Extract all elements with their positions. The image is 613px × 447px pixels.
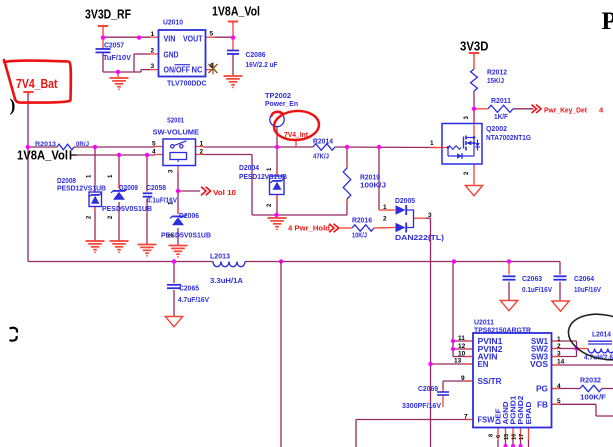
svg-text:2: 2: [151, 48, 155, 55]
svg-text:2: 2: [557, 343, 561, 350]
svg-text:100K/F: 100K/F: [580, 393, 607, 402]
svg-text:C2069: C2069: [418, 384, 438, 393]
svg-text:4.7uF/16V: 4.7uF/16V: [178, 295, 209, 304]
svg-text:U2010: U2010: [163, 18, 183, 27]
svg-text:1V8A_Vol: 1V8A_Vol: [17, 148, 68, 163]
svg-text:4: 4: [210, 63, 214, 70]
svg-text:SW-VOLUME: SW-VOLUME: [153, 128, 200, 137]
svg-text:C2064: C2064: [574, 274, 594, 283]
svg-text:Q2002: Q2002: [486, 124, 507, 133]
svg-text:4: 4: [557, 383, 561, 390]
svg-text:5: 5: [210, 31, 214, 38]
svg-text:1K/F: 1K/F: [494, 112, 509, 121]
svg-text:VOUT: VOUT: [183, 35, 203, 44]
svg-text:3300PF/16V: 3300PF/16V: [402, 401, 441, 410]
svg-text:2: 2: [87, 215, 93, 219]
svg-text:1: 1: [557, 336, 561, 343]
svg-text:R2011: R2011: [491, 96, 511, 105]
svg-text:0R/J: 0R/J: [76, 141, 89, 148]
svg-text:3V3D: 3V3D: [460, 39, 489, 54]
svg-text:2: 2: [200, 149, 204, 156]
svg-text:16V/2.2 uF: 16V/2.2 uF: [246, 60, 279, 69]
svg-text:14: 14: [557, 359, 565, 366]
svg-text:D2004: D2004: [239, 163, 259, 172]
svg-text:P: P: [602, 8, 613, 35]
svg-text:PESD5V0S1UB: PESD5V0S1UB: [102, 204, 152, 213]
svg-text:7: 7: [464, 414, 468, 421]
svg-text:10uF/16V: 10uF/16V: [574, 285, 601, 294]
svg-text:C2057: C2057: [104, 41, 124, 50]
svg-text:5: 5: [557, 398, 561, 405]
svg-text:PG: PG: [536, 385, 548, 394]
svg-text:VIN: VIN: [164, 35, 176, 44]
svg-text:TLV700DDC: TLV700DDC: [167, 79, 207, 88]
svg-text:NC: NC: [192, 66, 203, 75]
svg-text:C2063: C2063: [522, 274, 542, 283]
svg-text:S2001: S2001: [167, 116, 184, 125]
svg-text:3: 3: [151, 63, 155, 70]
svg-text:R2016: R2016: [352, 216, 372, 225]
svg-text:TPS62150ARGTR: TPS62150ARGTR: [474, 326, 532, 335]
svg-text:R2032: R2032: [580, 376, 601, 385]
svg-text:9: 9: [461, 375, 465, 382]
svg-text:3: 3: [428, 212, 432, 219]
svg-text:D2009: D2009: [119, 183, 138, 192]
svg-text:NTA7002NT1G: NTA7002NT1G: [486, 133, 531, 142]
svg-text:5: 5: [152, 141, 156, 148]
svg-text:C2065: C2065: [179, 284, 199, 293]
svg-text:GND: GND: [164, 50, 179, 59]
svg-text:C2058: C2058: [146, 183, 166, 192]
svg-text:3: 3: [169, 169, 175, 173]
svg-text:PESD12VS1UB: PESD12VS1UB: [239, 172, 287, 181]
svg-text:4: 4: [599, 106, 604, 115]
svg-text:FB: FB: [537, 400, 548, 409]
svg-text:17: 17: [519, 434, 525, 440]
svg-text:10K/J: 10K/J: [352, 231, 367, 240]
svg-text:3V3D_RF: 3V3D_RF: [85, 7, 131, 22]
svg-text:13: 13: [454, 358, 462, 365]
svg-text:3.3uH/1A: 3.3uH/1A: [210, 276, 243, 285]
svg-text:2: 2: [383, 216, 387, 223]
svg-text:2: 2: [267, 203, 273, 207]
svg-text:SS/TR: SS/TR: [478, 377, 502, 386]
svg-text:EPAD: EPAD: [524, 401, 533, 425]
svg-text:TuF/10V: TuF/10V: [103, 53, 131, 62]
svg-text:VOS: VOS: [530, 360, 548, 369]
svg-text:Pwr_Key_Det: Pwr_Key_Det: [544, 106, 587, 115]
svg-text:1: 1: [200, 141, 204, 148]
svg-text:100K/J: 100K/J: [360, 181, 386, 190]
svg-text:0.1uF/16V: 0.1uF/16V: [522, 285, 552, 294]
svg-text:C2086: C2086: [246, 50, 266, 59]
svg-text:L2013: L2013: [210, 252, 230, 261]
svg-text:1: 1: [383, 204, 387, 211]
svg-text:2: 2: [464, 171, 470, 175]
svg-text:ON/OFF: ON/OFF: [164, 66, 191, 75]
svg-text:3: 3: [557, 351, 561, 358]
svg-text:4 Pwr_Hold: 4 Pwr_Hold: [288, 224, 330, 233]
svg-text:1: 1: [151, 31, 155, 38]
svg-text:4: 4: [152, 149, 156, 156]
svg-text:1: 1: [267, 167, 273, 171]
svg-text:2: 2: [108, 215, 114, 219]
svg-text:DAN222(TL): DAN222(TL): [395, 233, 445, 242]
svg-text:1: 1: [87, 174, 93, 178]
svg-text:6: 6: [496, 435, 502, 438]
svg-text:Power_En: Power_En: [265, 99, 298, 108]
svg-text:16: 16: [512, 434, 518, 440]
svg-text:L2014: L2014: [592, 330, 611, 339]
svg-text:47K/J: 47K/J: [313, 152, 329, 161]
svg-text:R2014: R2014: [313, 137, 333, 146]
svg-text:3: 3: [464, 116, 470, 120]
svg-text:11: 11: [458, 335, 465, 342]
svg-text:Vol 10: Vol 10: [213, 188, 236, 197]
svg-text:7V4_Bat: 7V4_Bat: [16, 77, 58, 91]
svg-text:10: 10: [458, 351, 466, 358]
svg-text:1V8A_Vol: 1V8A_Vol: [212, 4, 260, 19]
svg-text:15: 15: [504, 434, 510, 440]
svg-text:1: 1: [430, 140, 434, 147]
svg-text:D2005: D2005: [395, 196, 415, 205]
svg-text:12: 12: [458, 343, 466, 350]
svg-text:PESD12VS1UB: PESD12VS1UB: [57, 184, 106, 193]
svg-text:R2013: R2013: [35, 141, 56, 148]
svg-text:D2006: D2006: [179, 211, 199, 220]
svg-text:FSW: FSW: [478, 416, 496, 425]
svg-text:1: 1: [108, 174, 114, 178]
svg-text:15K/J: 15K/J: [487, 76, 504, 85]
svg-text:EN: EN: [478, 360, 489, 369]
svg-text:8: 8: [489, 434, 495, 437]
